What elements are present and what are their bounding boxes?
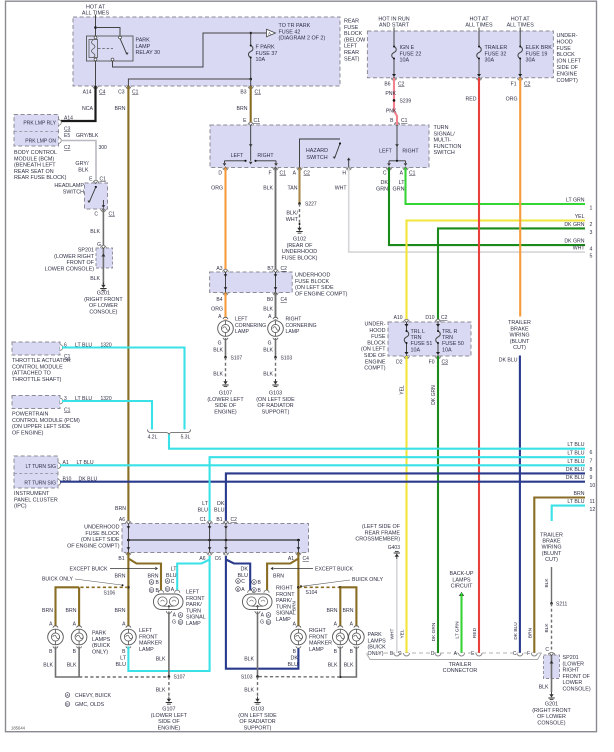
pin A1 IPC [58,463,61,469]
arrowheads at fuse block 2 exits [392,74,522,77]
pin label A-B right pt lamp brn [252,580,262,586]
svg-text:10A: 10A [400,58,410,64]
svg-text:RIGHT: RIGHT [309,628,326,634]
G103 cornering label [256,391,295,416]
label C (sp201) [545,647,549,653]
svg-text:G103: G103 [269,391,282,397]
svg-text:LOWER CONSOLE): LOWER CONSOLE) [45,266,95,272]
label B6 [384,82,390,88]
wire YEL line 2 to TRL L fuse [407,221,586,323]
svg-text:E: E [471,651,475,657]
terminal F tss [273,167,278,170]
svg-text:CONTROL MODULE: CONTROL MODULE [12,364,63,370]
svg-text:B1: B1 [118,556,124,562]
svg-text:C: C [94,212,98,218]
wire DK BLU IPC line 10 [60,481,585,483]
svg-text:BLK: BLK [263,307,273,313]
svg-text:EXCEPT BUICK: EXCEPT BUICK [70,567,108,573]
svg-text:6: 6 [590,450,593,456]
label E (headlamp sw) [89,177,93,183]
svg-text:S106: S106 [104,591,116,597]
svg-text:HEADLAMP: HEADLAMP [54,183,84,189]
svg-text:FUNCTION: FUNCTION [434,144,462,150]
svg-text:A6: A6 [119,517,125,523]
pin label B-A right pt lamp blu [236,587,246,593]
node number 12 [590,507,596,513]
wire BLK right buick lamps [339,647,341,678]
node fuse 37 top junction [249,32,252,35]
label G right cornering [268,341,272,347]
svg-text:IGN E: IGN E [400,45,415,51]
svg-text:SIDE OF: SIDE OF [364,353,386,359]
svg-text:A: A [268,314,272,320]
label B4 [216,297,222,303]
svg-text:D2: D2 [396,360,403,366]
wire BLK dashed right cornering to G103 [275,357,277,378]
G201 label (right) [532,702,571,727]
label RIGHT (hazard side) [402,149,419,155]
svg-text:8: 8 [590,467,593,473]
pin B trailer connector [390,651,394,657]
svg-text:D: D [218,171,222,177]
svg-text:C3: C3 [64,127,71,133]
svg-text:SIDE OF: SIDE OF [557,65,579,71]
label BRN left pt lamp [148,574,159,580]
arrow except buick left [110,567,158,571]
label DK BLU rotated (connector) [513,622,519,640]
svg-text:CUT): CUT) [545,557,558,563]
label A (lt grn) [400,171,404,177]
ground G201 (left) [100,283,106,291]
svg-text:REAR: REAR [344,19,359,25]
wire RED trailer fuse to trailer connector E [478,78,480,653]
lamp park lamp 1 (buick) [48,626,64,648]
label D2 [396,360,403,366]
fuse IGN E FUSE 22 10A [392,31,397,74]
relay K park lamp relay 30 body [87,36,134,61]
label 6 [64,343,67,349]
label DK BLU line 9 [566,467,585,473]
turn signal / multi-function switch [210,125,429,168]
svg-text:FUSE BLOCK: FUSE BLOCK [295,279,330,285]
back-up lamps circuit label [450,571,474,590]
wire BLK SP201 to G201 [102,268,104,284]
svg-text:SIDE OF: SIDE OF [215,403,237,409]
svg-text:CORNERING: CORNERING [235,323,266,329]
svg-text:SWITCH: SWITCH [63,189,84,195]
label YEL rotated [400,385,406,395]
legend circled B gmc olds [65,702,104,708]
svg-text:LAMP: LAMP [136,44,151,50]
svg-text:C4: C4 [99,90,106,96]
svg-text:(BLUNT: (BLUNT [542,551,562,557]
svg-text:COMPT): COMPT) [364,366,385,372]
svg-text:CONNECTOR: CONNECTOR [443,668,478,674]
label BLK/WHT [286,211,299,223]
svg-text:BRN: BRN [115,608,126,614]
splice S239 [393,99,396,102]
pin D trailer connector [431,651,435,657]
label YEL rotated (connector) [400,629,406,638]
trailer brake wiring blunt cut (middle) [508,320,531,351]
wire LT BLU line 12 blunt cut [552,506,585,521]
svg-text:BLK: BLK [90,276,100,282]
svg-text:B: B [293,649,297,655]
svg-text:LT GRN: LT GRN [455,621,461,639]
label C1 (F) [280,171,287,177]
wire DK BLU C6 loop to right marker [226,556,299,669]
pin E trailer connector [471,651,475,657]
label RIGHT (tss) [257,153,274,159]
label LT BLU (pcm) [75,396,92,402]
pin label A-B left pt lamp brn [149,580,159,586]
splice SP201 box (left) [96,248,113,268]
label LT TURN SIG [25,464,56,470]
terminal D10 C2 [435,319,440,322]
svg-text:BLK: BLK [328,663,338,669]
label BRN marker (left) [115,608,126,614]
label A left marker [122,622,126,628]
svg-text:TRL R: TRL R [442,329,457,335]
svg-text:FUSE 51: FUSE 51 [411,341,433,347]
fuse 22 label [400,45,422,64]
svg-text:(BUICK: (BUICK [368,645,387,651]
terminal A C2 tss [297,167,302,170]
wire BLK left cornering to S107 [225,338,227,357]
svg-text:5.3L: 5.3L [181,435,191,441]
svg-text:C1: C1 [255,90,262,96]
label PNK (below S239) [386,109,397,115]
svg-text:MODULE (BCM): MODULE (BCM) [14,156,54,162]
label E5 [64,133,70,139]
ground G102 [296,223,302,233]
wire BLK trailer brake to S211 [551,567,553,603]
label BLK left pt [156,657,166,663]
label RED [466,97,477,103]
node number 5 [590,254,593,260]
label S103 bottom [241,675,253,681]
label BRN (right branch) [273,574,284,580]
terminal B3 C1 [248,85,253,88]
label B10 (ipc) [63,477,72,483]
SP201 label [45,248,95,273]
label HOT AT ALL TIMES (park lamp relay feed) [82,5,110,17]
label A (tan) [293,171,297,177]
label S227 [305,202,317,208]
svg-text:SUPPORT): SUPPORT) [262,409,290,415]
wire NCA black A14 to BCM [61,86,96,121]
svg-text:BLK: BLK [78,167,89,173]
label A park lamp 1 [49,622,53,628]
node number 11 [590,499,595,505]
svg-text:BLK: BLK [263,372,273,378]
wire BLK park lamp 2 down [78,647,80,678]
label B right buick 1 [334,649,338,655]
svg-text:DK GRN: DK GRN [564,222,584,228]
svg-text:LAMP: LAMP [235,329,249,335]
svg-text:30A: 30A [485,58,495,64]
svg-text:BLOCK: BLOCK [367,340,386,346]
svg-text:FUSE 50: FUSE 50 [442,341,464,347]
svg-text:TO TR PARK: TO TR PARK [279,23,311,29]
wire BRN branch to left park/turn lamp [128,559,161,593]
label BLK (to G201 right) [539,685,549,691]
underhood fuse block (TRL fuses) [388,322,471,356]
svg-text:(DIAGRAM 2 OF 2): (DIAGRAM 2 OF 2) [279,36,326,42]
svg-text:RT TURN SIG: RT TURN SIG [24,481,56,487]
fuse 37 label [256,45,278,64]
svg-text:BRN: BRN [115,574,126,580]
svg-text:SIGNAL/: SIGNAL/ [434,131,456,137]
svg-text:BLK: BLK [263,348,273,354]
pin G trailer connector [398,651,402,657]
label BLK park lamp 1 [43,663,53,669]
pin label A circled-A below left pt lamp [173,613,183,619]
wire fuse37 bottom to C3 exit [128,79,250,86]
headlamp switch body [85,183,108,209]
underhood fuse block label (cornering) [295,273,348,298]
label TAN [288,186,298,192]
svg-text:BUICK ONLY: BUICK ONLY [42,577,74,583]
svg-text:DK GRN: DK GRN [564,239,584,245]
svg-text:B4: B4 [216,297,222,303]
svg-text:BLK: BLK [244,657,254,663]
svg-text:BLU: BLU [214,507,225,513]
wire LT BLU branch to left park turn lamp [177,560,209,593]
label DK BLU (ipc) [79,477,98,483]
splice S227 [298,202,301,205]
label C6 bottom [215,556,222,562]
svg-text:PNK: PNK [386,109,397,115]
label A right cornering [268,314,272,320]
svg-text:TURN: TURN [186,608,201,614]
svg-text:REAR FUSE BLOCK): REAR FUSE BLOCK) [14,175,67,181]
turn signal left selector [223,125,278,166]
body control module (BCM) [14,115,59,147]
svg-text:UNDER-: UNDER- [365,322,386,328]
wire ORG D to underhood A3 [224,168,226,273]
wire LT BLU throttle to brace [62,348,185,430]
fuse TRAILER FUSE 32 30A [477,31,482,74]
label DK GRN rotated [431,385,437,405]
G103 bottom label [238,707,277,732]
IPC label [14,491,58,510]
svg-text:(ATTACHED TO: (ATTACHED TO [12,371,51,377]
arrow to back-up lamps circuit [459,592,464,596]
svg-text:10: 10 [590,483,596,489]
svg-text:LEFT: LEFT [186,590,200,596]
svg-text:OF ENGINE COMPT): OF ENGINE COMPT) [295,291,348,297]
svg-text:PARK: PARK [368,632,383,638]
svg-text:F PARK: F PARK [256,45,275,51]
svg-text:DK GRN: DK GRN [431,622,437,641]
svg-text:S103: S103 [241,675,253,681]
svg-text:SIGNAL: SIGNAL [186,615,206,621]
svg-text:MARKER: MARKER [309,641,332,647]
label A1 (ipc) [63,460,69,466]
svg-text:SIDE OF: SIDE OF [158,719,180,725]
svg-text:BLK/: BLK/ [286,211,298,217]
arrow except buick right [271,567,314,571]
svg-text:LAMP: LAMP [139,647,154,653]
label C2 top [231,517,238,523]
label C2 (ign e) [398,82,405,88]
pin label B-A left pt lamp blu [165,587,175,593]
label 300 circuit [99,145,108,151]
svg-text:A: A [218,314,222,320]
svg-text:(LEFT SIDE OF: (LEFT SIDE OF [362,524,401,530]
svg-text:ORG: ORG [211,307,223,313]
wire relay coil to A14 exit [95,61,97,86]
pin label B-B left pt lamp brn [149,588,159,594]
hazard switch symbol [300,139,351,168]
label C2 (trl) [441,315,448,321]
rear fuse block label [344,19,366,63]
svg-text:RIGHT: RIGHT [286,317,302,323]
svg-text:DK: DK [217,501,225,507]
svg-text:C2: C2 [304,171,311,177]
label BRN (C3) [115,106,126,112]
svg-text:LT: LT [120,656,127,662]
svg-text:BLK: BLK [67,663,77,669]
svg-text:A: A [73,622,77,628]
svg-text:C2: C2 [64,145,71,151]
svg-text:SEAT): SEAT) [344,56,360,62]
svg-text:HOOD: HOOD [557,39,573,45]
terminal D2 [404,355,409,358]
label A14 [83,90,92,96]
svg-text:FRONT OF: FRONT OF [563,674,591,680]
wire BRN line 11 to trailer connector F [534,498,585,654]
svg-text:F: F [527,651,530,657]
wire LT GRN A to right edge line 1 [406,168,586,205]
svg-text:WHT: WHT [335,186,348,192]
label A6 bottom [199,556,205,562]
label C1 (headlamp sw bottom) [109,212,116,218]
svg-text:B: B [350,649,354,655]
label WHT rotated [390,628,396,639]
label HOT AT ALL TIMES (trailer fuse) [465,17,493,29]
svg-text:DK: DK [381,180,389,186]
node number 9 [590,475,593,481]
svg-text:TRN: TRN [442,335,453,341]
svg-text:FUSE BLOCK): FUSE BLOCK) [282,255,318,261]
svg-text:WIRING: WIRING [541,545,561,551]
svg-text:C1: C1 [109,212,116,218]
node fuse 37 bottom junction [249,78,252,81]
svg-text:FRONT: FRONT [309,634,328,640]
svg-text:DK: DK [241,567,249,573]
svg-text:RIGHT: RIGHT [276,586,293,592]
terminal F0 C3 [435,355,440,358]
svg-text:RED: RED [466,97,477,103]
label B left marker [122,649,126,655]
terminal SP201 right top [549,652,554,655]
svg-text:CUT): CUT) [513,345,526,351]
label LT GRN line 1 [566,198,585,204]
label PRK LMP RLY [23,121,56,127]
lamp right buick park lamp 1 [333,626,349,648]
wire BRN dashed buick only (right) [298,586,340,588]
svg-text:OF ENGINE COMPT): OF ENGINE COMPT) [67,543,120,549]
svg-text:BRN: BRN [115,106,126,112]
label B1 bottom [118,556,124,562]
left front park/turn signal lamp label [186,590,206,628]
label C4 bottom [303,556,310,562]
ground G107 (bottom) [166,697,172,705]
wire BRN to right buick park lamps [340,587,356,627]
node number 3 [590,230,593,236]
svg-text:REAR SEAT ON: REAR SEAT ON [14,169,54,175]
svg-text:CHEVY, BUICK: CHEVY, BUICK [75,693,111,699]
svg-text:B: B [258,580,262,586]
svg-text:DK GRN: DK GRN [431,385,437,405]
label BRN (B3) [237,106,248,112]
wire LT BLU IPC line 8 [60,464,585,466]
pin label A-C right pt lamp blu [236,579,246,585]
svg-text:LT BLU: LT BLU [567,499,584,505]
svg-text:LEFT: LEFT [379,149,393,155]
SP201 label (right) [563,655,591,693]
svg-text:TRAILER: TRAILER [485,45,508,51]
svg-text:LEFT: LEFT [235,317,247,323]
splice SP201 box (right) [544,655,560,679]
svg-text:A: A [171,587,175,593]
label C1 (rear fuse block) [132,90,139,96]
label C1 (tss pnk) [401,118,408,124]
svg-text:OF ENGINE): OF ENGINE) [12,430,44,436]
wire YEL fuse51 to trailer connector G [405,356,407,653]
svg-text:LEFT: LEFT [231,153,245,159]
label ORG (cornering) [211,307,223,313]
svg-text:185644: 185644 [11,726,26,731]
svg-text:GRY/: GRY/ [75,161,89,167]
svg-text:BLU: BLU [116,662,127,668]
label DK GRN rotated (connector) [431,622,437,641]
svg-text:INSTRUMENT: INSTRUMENT [14,491,50,497]
label BRN rotated (connector) [528,627,534,638]
label F0 [429,360,435,366]
wire BRN C3 down to underhood A6 [127,86,129,524]
label PRK LMP ON [25,139,56,145]
label G left cornering [218,341,222,347]
label DK BLU (blunt cut) [499,358,518,364]
label BLK (cornering) [263,307,273,313]
label S104 [306,590,318,596]
label F1 [511,82,517,88]
svg-text:LAMP: LAMP [276,617,291,623]
svg-text:C1: C1 [254,118,261,124]
svg-text:GRN: GRN [393,186,405,192]
G403 location label [355,524,400,543]
underhood fuse block label (TRL fuses) [361,322,386,372]
svg-text:LT BLU: LT BLU [567,442,584,448]
svg-text:RELAY 30: RELAY 30 [136,50,161,56]
svg-text:HOT IN RUN: HOT IN RUN [378,17,409,23]
svg-text:ENGINE): ENGINE) [158,725,181,731]
label C1 (tss top) [254,118,261,124]
label A3 [216,266,222,272]
svg-text:UNDER-: UNDER- [557,33,578,39]
left cornering lamp label [235,317,266,336]
right front marker lamp label [309,628,332,653]
wire ORG elek brk to blunt cut [519,78,521,317]
label BLK park lamp 2 [67,663,77,669]
svg-text:PRK LMP ON: PRK LMP ON [25,139,56,145]
svg-text:S107: S107 [174,675,186,681]
label DK BLU above B1 [214,501,225,513]
underhood fuse block (wide) [122,524,309,553]
